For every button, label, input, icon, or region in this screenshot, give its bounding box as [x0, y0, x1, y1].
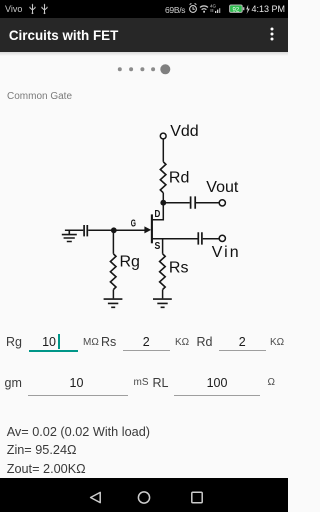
- battery: [229, 4, 251, 15]
- alarm icon: [190, 6, 197, 13]
- wire C3 to Vin: [203, 238, 220, 240]
- svg-text:D: D: [155, 209, 161, 220]
- app bar: [0, 18, 288, 52]
- ground (Rs): [153, 299, 172, 307]
- page indicator dots: [112, 60, 176, 76]
- svg-text:G: G: [131, 218, 136, 229]
- wire Rg to ground: [112, 290, 114, 299]
- wire C2 to ground: [65, 229, 83, 231]
- capacitor C3 (Vin coupling): [198, 232, 202, 244]
- wifi icon: [200, 6, 208, 10]
- svg-text:Vin: Vin: [212, 244, 239, 261]
- capacitor C2 (gate bypass): [84, 225, 87, 236]
- wire gate: [114, 229, 145, 231]
- svg-text:Rg: Rg: [120, 254, 140, 271]
- input row 2: [5, 376, 22, 390]
- Vin terminal: [219, 235, 225, 241]
- svg-text:Rd: Rd: [169, 170, 189, 187]
- signal bars: [215, 11, 216, 13]
- node drain junction: [160, 200, 166, 206]
- section label: [7, 91, 72, 102]
- wire Rs to ground: [162, 290, 164, 299]
- wire gate node to C2: [88, 229, 114, 231]
- resistor Rs: [160, 254, 166, 290]
- nav bar: [0, 478, 288, 512]
- resistor Rg: [110, 254, 116, 290]
- wire gate node to Rg: [112, 230, 114, 254]
- resistor Rd: [160, 162, 166, 193]
- wire Vdd to Rd: [162, 139, 164, 162]
- svg-text:Vdd: Vdd: [170, 123, 198, 140]
- capacitor C1 (Vout coupling): [191, 196, 196, 208]
- wire drain node to C1: [163, 202, 190, 204]
- input row 1: [6, 335, 22, 349]
- Vout terminal: [219, 200, 225, 206]
- results: [7, 425, 150, 439]
- svg-text:S: S: [155, 241, 161, 252]
- wire Rd to drain node: [162, 193, 164, 203]
- Vdd terminal: [160, 133, 166, 139]
- node gate junction: [111, 227, 117, 233]
- svg-text:Vout: Vout: [206, 179, 239, 196]
- ground (Rg): [104, 299, 123, 307]
- wire C1 to Vout: [196, 202, 219, 204]
- status bar: [0, 0, 288, 18]
- svg-text:Rs: Rs: [169, 260, 189, 277]
- wire source to Rs: [162, 239, 164, 254]
- transistor Q1 JFET: [151, 214, 153, 243]
- ground (gate bypass): [62, 230, 77, 241]
